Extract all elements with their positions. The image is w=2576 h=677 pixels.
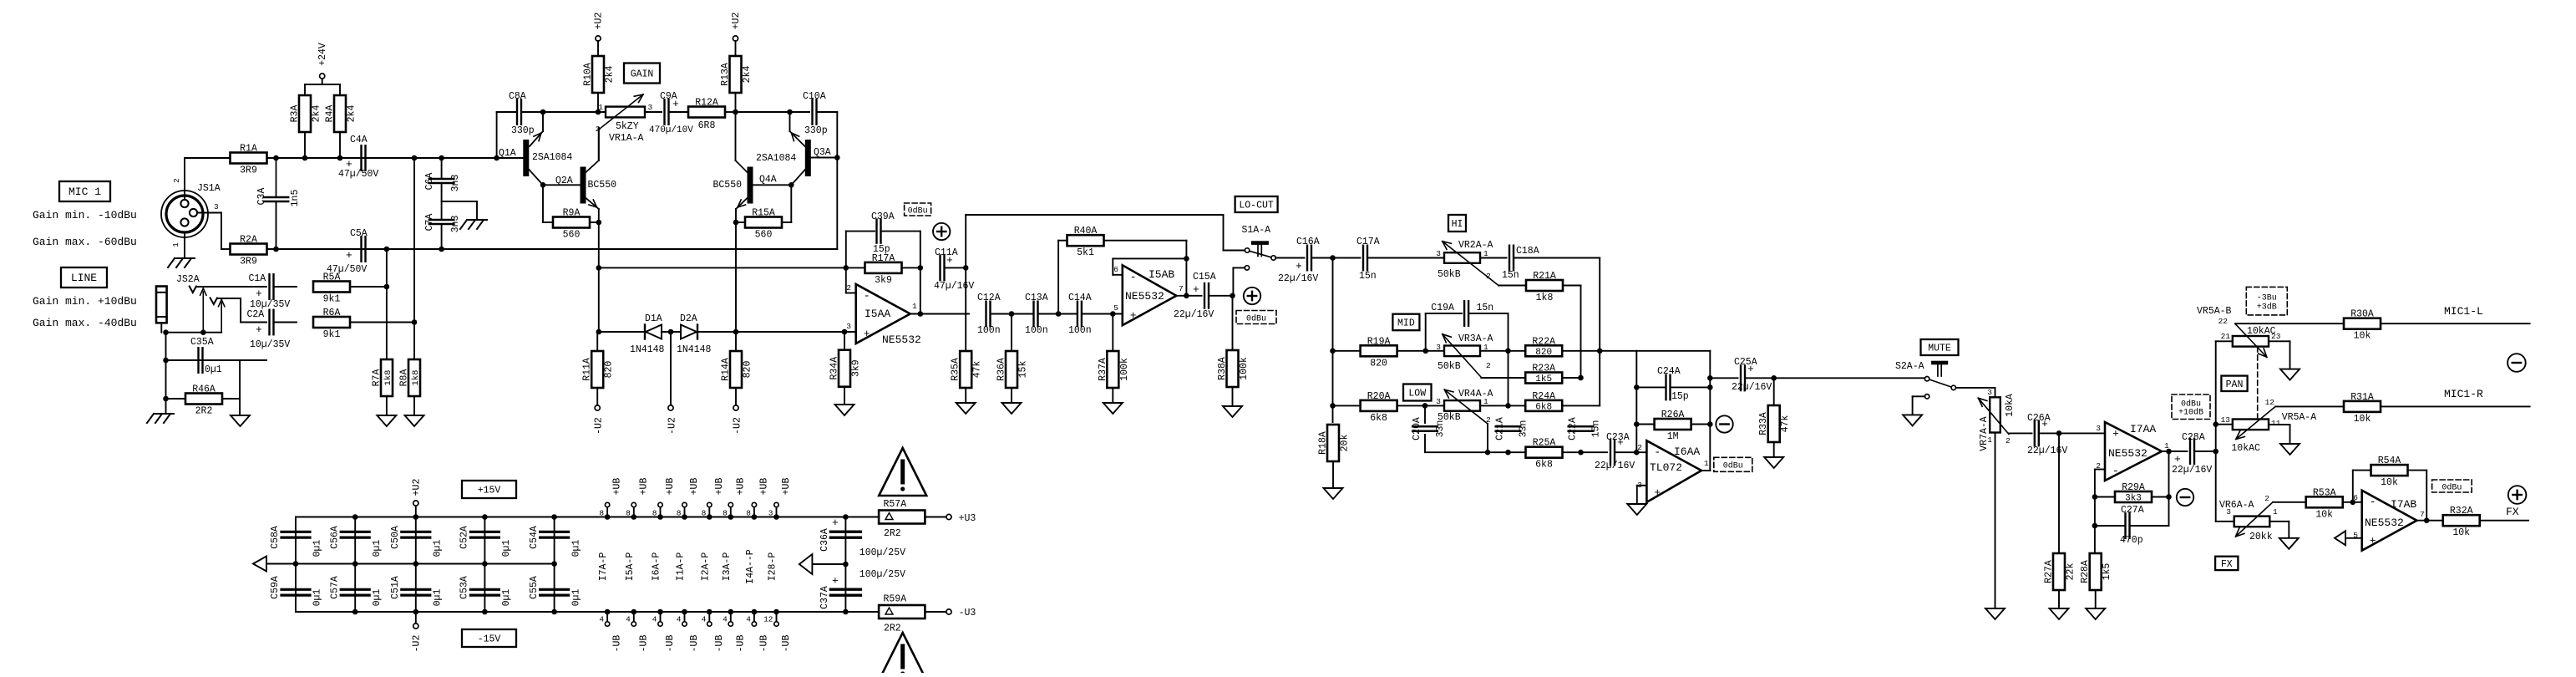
wire ring row <box>217 298 266 323</box>
svg-text:22µ/16V: 22µ/16V <box>2172 465 2212 476</box>
svg-text:VR7A-A: VR7A-A <box>1979 416 1990 451</box>
resistor R11A <box>582 332 615 405</box>
svg-text:C14A: C14A <box>1068 293 1092 303</box>
svg-text:I28-P: I28-P <box>768 552 778 582</box>
pot VR4A-A <box>1436 389 1493 425</box>
svg-text:R6A: R6A <box>323 308 341 318</box>
power pin +UB I4A--P <box>746 478 769 520</box>
svg-text:-: - <box>2370 496 2376 508</box>
pot VR7A-A <box>1978 388 2016 451</box>
wire i5ab out <box>1176 295 1201 297</box>
ground i7ab +in <box>2335 531 2345 545</box>
wire cap column C58A <box>295 517 297 613</box>
node tip gnd <box>200 329 206 335</box>
ground r36a <box>1002 403 1022 414</box>
q3a emitter <box>790 112 805 146</box>
wire vert 1156 <box>965 215 966 351</box>
svg-text:1N4148: 1N4148 <box>630 344 665 355</box>
resistor R17A <box>846 253 920 286</box>
svg-text:4: 4 <box>723 615 728 624</box>
svg-text:+: + <box>672 98 679 110</box>
wire cap column C52A <box>484 517 485 613</box>
svg-text:VR5A-A: VR5A-A <box>2282 412 2317 423</box>
wire r9a leads <box>543 221 599 223</box>
label box -15V <box>462 629 516 647</box>
svg-text:I1A-P: I1A-P <box>676 552 687 582</box>
node R4A row <box>337 155 343 161</box>
wire c16a right <box>1312 257 1361 259</box>
node i6aa -in <box>1634 450 1640 456</box>
svg-text:+: + <box>1617 436 1624 449</box>
wire c11a right <box>945 267 966 268</box>
svg-text:470p: 470p <box>2120 535 2143 546</box>
svg-text:+UB: +UB <box>689 478 700 496</box>
node i5aa out <box>918 311 924 317</box>
node r46a left <box>163 396 169 402</box>
svg-text:R40A: R40A <box>1074 226 1098 237</box>
node r40a bottom <box>1056 311 1062 317</box>
wire cap column C56A <box>354 517 356 613</box>
node r2a-c3a <box>273 247 279 252</box>
svg-text:R25A: R25A <box>1533 438 1556 449</box>
resistor R15A <box>745 208 782 241</box>
text VR5A-B <box>2197 306 2232 317</box>
wire q3a base <box>811 157 838 159</box>
svg-text:R46A: R46A <box>192 384 216 395</box>
svg-text:10kAC: 10kAC <box>2231 443 2260 454</box>
resistor R2A <box>231 235 267 267</box>
node C55A bottom <box>551 609 557 615</box>
ground vr5b <box>2280 369 2300 380</box>
svg-text:0µ1: 0µ1 <box>312 589 323 607</box>
ic power label I28-P <box>768 552 778 582</box>
svg-text:C8A: C8A <box>509 91 526 102</box>
svg-text:1k5: 1k5 <box>1535 374 1552 384</box>
ground r28a <box>2086 608 2105 619</box>
symbol minus i7aa <box>2177 489 2193 506</box>
svg-text:-UB: -UB <box>758 635 769 653</box>
wire c26a right <box>2039 432 2105 434</box>
wire vr6a pin1 <box>2269 522 2289 538</box>
wire row189 <box>305 157 523 159</box>
svg-text:R5A: R5A <box>323 272 341 283</box>
svg-text:1k8: 1k8 <box>383 370 393 386</box>
wire q2a coll up <box>598 128 600 160</box>
svg-text:-UB: -UB <box>665 635 676 653</box>
wire r5a out <box>350 286 387 288</box>
text mic gain max <box>33 236 137 248</box>
svg-text:20k: 20k <box>1340 435 1351 452</box>
ic power label I3A-P <box>722 552 733 582</box>
q2a collector <box>586 160 599 172</box>
ic power label I4A--P <box>745 549 756 584</box>
wire r7a gnd <box>386 396 388 415</box>
svg-text:820: 820 <box>604 361 615 379</box>
capacitor C16A <box>1278 237 1320 284</box>
svg-text:LO-CUT: LO-CUT <box>1239 201 1274 211</box>
node c36a mid <box>843 562 849 568</box>
node row397 r14a <box>733 329 739 335</box>
node row189 x496 <box>412 155 418 161</box>
wire vr2a wiper to r21a <box>1498 285 1526 287</box>
wire s1a lower throw <box>1233 267 1245 295</box>
svg-text:R19A: R19A <box>1367 336 1391 347</box>
node c7a bottom <box>439 247 444 252</box>
svg-text:Q4A: Q4A <box>759 175 777 186</box>
svg-text:C6A: C6A <box>424 173 435 191</box>
symbol minus micr <box>2508 354 2526 372</box>
svg-text:3: 3 <box>1987 388 1992 397</box>
svg-text:22k: 22k <box>2066 563 2077 581</box>
wire row397 <box>599 331 856 333</box>
svg-text:I2A-P: I2A-P <box>700 552 711 582</box>
wire i5aa out row <box>910 313 969 315</box>
wire vr5a pin13 <box>2216 424 2233 425</box>
wire fb top <box>1636 350 1710 352</box>
svg-text:15n: 15n <box>1477 303 1494 313</box>
svg-text:+10dB: +10dB <box>2178 407 2203 417</box>
svg-text:4: 4 <box>677 615 682 624</box>
wire i6aa +in <box>1637 486 1647 504</box>
node r37a top <box>1110 311 1116 317</box>
svg-text:NE5532: NE5532 <box>2365 517 2404 529</box>
svg-text:R14A: R14A <box>721 358 732 381</box>
wire i5aa -in <box>846 267 856 293</box>
capacitor C9A <box>649 91 693 135</box>
svg-text:+: + <box>946 254 953 267</box>
svg-text:BC550: BC550 <box>588 180 617 191</box>
svg-text:2SA1084: 2SA1084 <box>756 153 796 164</box>
terminal -U2 r11a <box>594 405 605 435</box>
resistor R46A <box>185 384 222 417</box>
node c6a top <box>439 155 444 161</box>
node d1a-d2a mid <box>668 329 674 335</box>
svg-text:I7A-P: I7A-P <box>598 552 609 582</box>
svg-text:50kB: 50kB <box>1438 269 1461 280</box>
wire c36a column <box>844 517 846 613</box>
capacitor C3A <box>256 158 301 249</box>
wire c2a to r6a <box>274 322 297 323</box>
capacitor C24A <box>1636 366 1710 402</box>
svg-text:4: 4 <box>652 615 657 624</box>
svg-text:R20A: R20A <box>1367 391 1391 402</box>
wire mic1-r out <box>2381 388 2530 406</box>
svg-text:R57A: R57A <box>884 499 907 510</box>
dashed 0dBu at i6aa <box>1714 457 1752 471</box>
label box LINE <box>61 267 107 288</box>
svg-text:2R2: 2R2 <box>884 528 901 539</box>
label box MIC 1 <box>59 181 110 201</box>
wire r9a left up <box>542 185 544 222</box>
svg-text:4: 4 <box>626 615 631 624</box>
wire i6aa fb left <box>1635 351 1637 452</box>
wire vert 496 <box>413 158 415 359</box>
svg-text:1: 1 <box>1987 435 1992 445</box>
node c20a tap <box>1422 403 1428 409</box>
wire i7aa -in <box>2095 470 2105 554</box>
svg-text:820: 820 <box>1370 358 1387 369</box>
resistor R12A <box>688 98 725 132</box>
ground r38a <box>1223 406 1242 417</box>
svg-text:MIC1-L: MIC1-L <box>2444 305 2483 318</box>
wire i5aa out up <box>920 267 921 313</box>
node r29a left <box>2092 494 2098 500</box>
label box PAN <box>2221 376 2247 391</box>
wire r59a out <box>925 611 946 613</box>
svg-text:C16A: C16A <box>1296 237 1320 247</box>
node c15a-r38a <box>1230 293 1235 299</box>
op-amp I6AA <box>1637 440 1709 502</box>
capacitor C37A <box>819 575 860 609</box>
node fb c24a right <box>1707 384 1713 390</box>
svg-text:I4A--P: I4A--P <box>745 549 756 584</box>
capacitor C39A <box>871 211 895 255</box>
ground r33a <box>1764 457 1783 468</box>
symbol plus fx <box>2508 486 2527 504</box>
power pin -UB I1A-P <box>677 609 700 653</box>
svg-text:-: - <box>1654 446 1661 459</box>
wire mic1-l row <box>2235 323 2344 324</box>
resistor R1A <box>231 144 267 176</box>
svg-text:+24V: +24V <box>317 43 328 66</box>
svg-text:2: 2 <box>1486 361 1491 370</box>
svg-text:8: 8 <box>746 509 751 518</box>
svg-text:1: 1 <box>1704 459 1709 468</box>
resistor R14A <box>721 332 753 405</box>
svg-text:4: 4 <box>702 615 707 624</box>
svg-text:0µ1: 0µ1 <box>205 364 222 375</box>
capacitor C59A <box>270 576 323 606</box>
node C50A top <box>413 514 419 520</box>
svg-text:8: 8 <box>677 509 682 518</box>
svg-text:4: 4 <box>746 615 751 624</box>
svg-text:-: - <box>1130 271 1137 283</box>
node c21a top <box>1505 403 1511 409</box>
svg-text:2: 2 <box>846 283 851 293</box>
svg-text:C15A: C15A <box>1193 272 1216 283</box>
svg-text:+UB: +UB <box>612 478 623 496</box>
node sleeve <box>163 329 169 335</box>
wire R1A to node <box>267 157 306 159</box>
wire r21a right <box>1564 286 1581 379</box>
terminal -U2 r14a <box>733 405 743 435</box>
svg-text:MID: MID <box>1397 318 1415 329</box>
terminal +U2 r13a <box>731 13 742 42</box>
node i5aa fb right <box>918 265 924 271</box>
capacitor C35A <box>190 337 222 375</box>
node C56A top <box>352 514 358 520</box>
capacitor C14A <box>1068 293 1092 336</box>
wire vert 463 <box>386 249 388 359</box>
wire r54a right down <box>2426 471 2427 521</box>
transistor Q4A <box>713 167 753 204</box>
svg-text:12: 12 <box>2265 398 2275 407</box>
jack tip contact <box>190 287 206 333</box>
node r10a row <box>596 109 601 115</box>
node c37a bottom <box>843 609 849 615</box>
svg-text:15p: 15p <box>1671 391 1689 402</box>
svg-text:R38A: R38A <box>1217 357 1228 380</box>
svg-text:6R8: 6R8 <box>698 120 716 131</box>
capacitor C22A <box>1568 417 1602 440</box>
connector JS1A <box>161 183 221 237</box>
svg-text:R32A: R32A <box>2450 506 2473 517</box>
warning triangle top <box>879 448 926 496</box>
svg-text:15k: 15k <box>1018 361 1029 379</box>
chassis ground xlr <box>168 258 195 267</box>
svg-text:20kk: 20kk <box>2249 532 2273 542</box>
wire vr3a wiper row <box>1481 377 1525 379</box>
svg-text:+: + <box>832 575 839 588</box>
terminal -U2 rail <box>412 612 423 652</box>
svg-text:330p: 330p <box>511 125 535 136</box>
wire c9a to r12a <box>669 111 688 113</box>
wire sleeve down <box>165 333 167 399</box>
diode D2A <box>677 313 712 355</box>
svg-text:C3A: C3A <box>256 188 267 206</box>
svg-text:C28A: C28A <box>2182 432 2205 443</box>
svg-text:3k9: 3k9 <box>875 275 892 286</box>
node c11a right <box>963 265 969 271</box>
svg-text:15n: 15n <box>1502 270 1519 281</box>
svg-text:R24A: R24A <box>1532 391 1555 402</box>
wire c12a-c13a <box>991 313 1033 315</box>
resistor R5A <box>313 272 350 305</box>
node C50A mid <box>413 561 419 567</box>
wire r13a down <box>735 93 737 112</box>
svg-text:3: 3 <box>2096 424 2101 433</box>
node R3A row <box>302 155 308 161</box>
svg-text:PAN: PAN <box>2226 379 2244 390</box>
capacitor C52A <box>459 526 513 557</box>
wire 24v split <box>305 79 340 95</box>
svg-text:C20A: C20A <box>1412 417 1422 440</box>
svg-text:1: 1 <box>171 242 180 247</box>
svg-text:1N4148: 1N4148 <box>677 344 712 355</box>
label box LOW <box>1403 384 1432 401</box>
pin label 2 <box>172 178 181 183</box>
svg-text:2: 2 <box>2006 436 2011 445</box>
power pin +UB I2A-P <box>702 478 725 520</box>
resistor R28A <box>2080 553 2112 608</box>
transistor Q2A <box>581 167 617 204</box>
svg-text:8: 8 <box>599 509 604 518</box>
resistor R59A <box>879 594 925 634</box>
wire c25a right <box>1746 377 1925 379</box>
svg-text:C35A: C35A <box>190 337 214 348</box>
svg-text:R31A: R31A <box>2350 392 2374 403</box>
svg-text:Q3A: Q3A <box>814 147 831 158</box>
svg-text:-UB: -UB <box>781 635 792 653</box>
svg-text:+3dB: +3dB <box>2257 303 2277 313</box>
svg-text:100n: 100n <box>977 325 1001 336</box>
svg-text:10k: 10k <box>2354 414 2371 425</box>
svg-text:+: + <box>2370 535 2376 547</box>
q3a collector <box>791 170 805 185</box>
pot VR6A-A <box>2219 494 2278 542</box>
wire row134 left <box>543 111 606 113</box>
resistor R54A <box>2353 456 2426 488</box>
wire r38a top <box>1232 296 1234 350</box>
pot VR5A-A <box>2221 398 2317 440</box>
wire r10a top <box>597 41 599 58</box>
wire q2a base row <box>543 176 580 186</box>
svg-text:C24A: C24A <box>1657 366 1681 377</box>
label box MUTE <box>1921 339 1959 355</box>
svg-text:C12A: C12A <box>977 293 1001 303</box>
svg-text:3k3: 3k3 <box>2125 494 2142 504</box>
wire top rail <box>296 517 879 518</box>
svg-text:10µ/35V: 10µ/35V <box>250 339 290 350</box>
svg-text:-UB: -UB <box>638 635 649 653</box>
resistor R3A <box>290 95 322 132</box>
op-amp I7AA <box>2096 422 2169 481</box>
wire q4a emit down <box>735 209 737 222</box>
node i5ab out <box>1184 293 1189 299</box>
symbol plus c11a <box>933 223 950 240</box>
text 100u/25V top <box>860 547 905 558</box>
resistor R35A <box>951 351 983 403</box>
svg-text:Q1A: Q1A <box>499 148 516 159</box>
svg-text:560: 560 <box>755 230 773 241</box>
node C54A mid <box>551 561 557 567</box>
svg-text:100n: 100n <box>1025 325 1048 336</box>
resistor R10A <box>583 56 616 93</box>
wire R3A down <box>304 132 306 158</box>
wire c7a bottom <box>441 225 443 249</box>
svg-text:-U2: -U2 <box>733 417 743 435</box>
svg-text:0µ1: 0µ1 <box>433 540 444 557</box>
svg-text:-: - <box>2112 465 2119 477</box>
svg-text:0dBu: 0dBu <box>1723 461 1743 471</box>
svg-text:2k4: 2k4 <box>312 105 322 123</box>
svg-text:C36A: C36A <box>819 528 830 552</box>
wire r15a leads <box>736 221 791 223</box>
node row397 left <box>596 329 602 335</box>
pin label 3 <box>214 202 219 211</box>
wire JS1A pin3 <box>197 213 231 250</box>
svg-text:3: 3 <box>1436 343 1441 352</box>
wire c8a right <box>522 111 543 113</box>
wire r53a right <box>2343 501 2362 503</box>
svg-text:R21A: R21A <box>1533 271 1556 282</box>
svg-text:0dBu: 0dBu <box>2442 482 2462 492</box>
terminal -U2 mid <box>667 405 678 435</box>
svg-text:+: + <box>1193 283 1199 296</box>
wire fb right <box>1709 351 1711 471</box>
svg-text:100k: 100k <box>1239 357 1250 380</box>
wire s2a out <box>1956 388 1995 397</box>
ic power label I6A-P <box>652 552 662 582</box>
node r33a top <box>1771 375 1777 381</box>
wire q4a base row <box>753 175 791 186</box>
svg-text:NE5532: NE5532 <box>2108 447 2148 460</box>
svg-text:C51A: C51A <box>390 576 401 599</box>
svg-text:2R2: 2R2 <box>195 406 213 417</box>
wire vr5a pin11 <box>2269 425 2290 444</box>
wire R2A to node <box>267 248 306 250</box>
svg-text:MIC1-R: MIC1-R <box>2444 388 2483 400</box>
wire s2a throw2 <box>1913 396 1925 415</box>
power pin -UB I6A-P <box>652 609 676 653</box>
dashed 0dBu/+10dB <box>2172 394 2210 420</box>
svg-text:FX: FX <box>2506 506 2519 518</box>
node r22a right <box>1597 349 1603 354</box>
terminal +U3 <box>946 513 976 524</box>
svg-text:I6AA: I6AA <box>1674 445 1700 458</box>
svg-text:2: 2 <box>2264 494 2269 503</box>
svg-text:VR5A-B: VR5A-B <box>2197 306 2232 317</box>
